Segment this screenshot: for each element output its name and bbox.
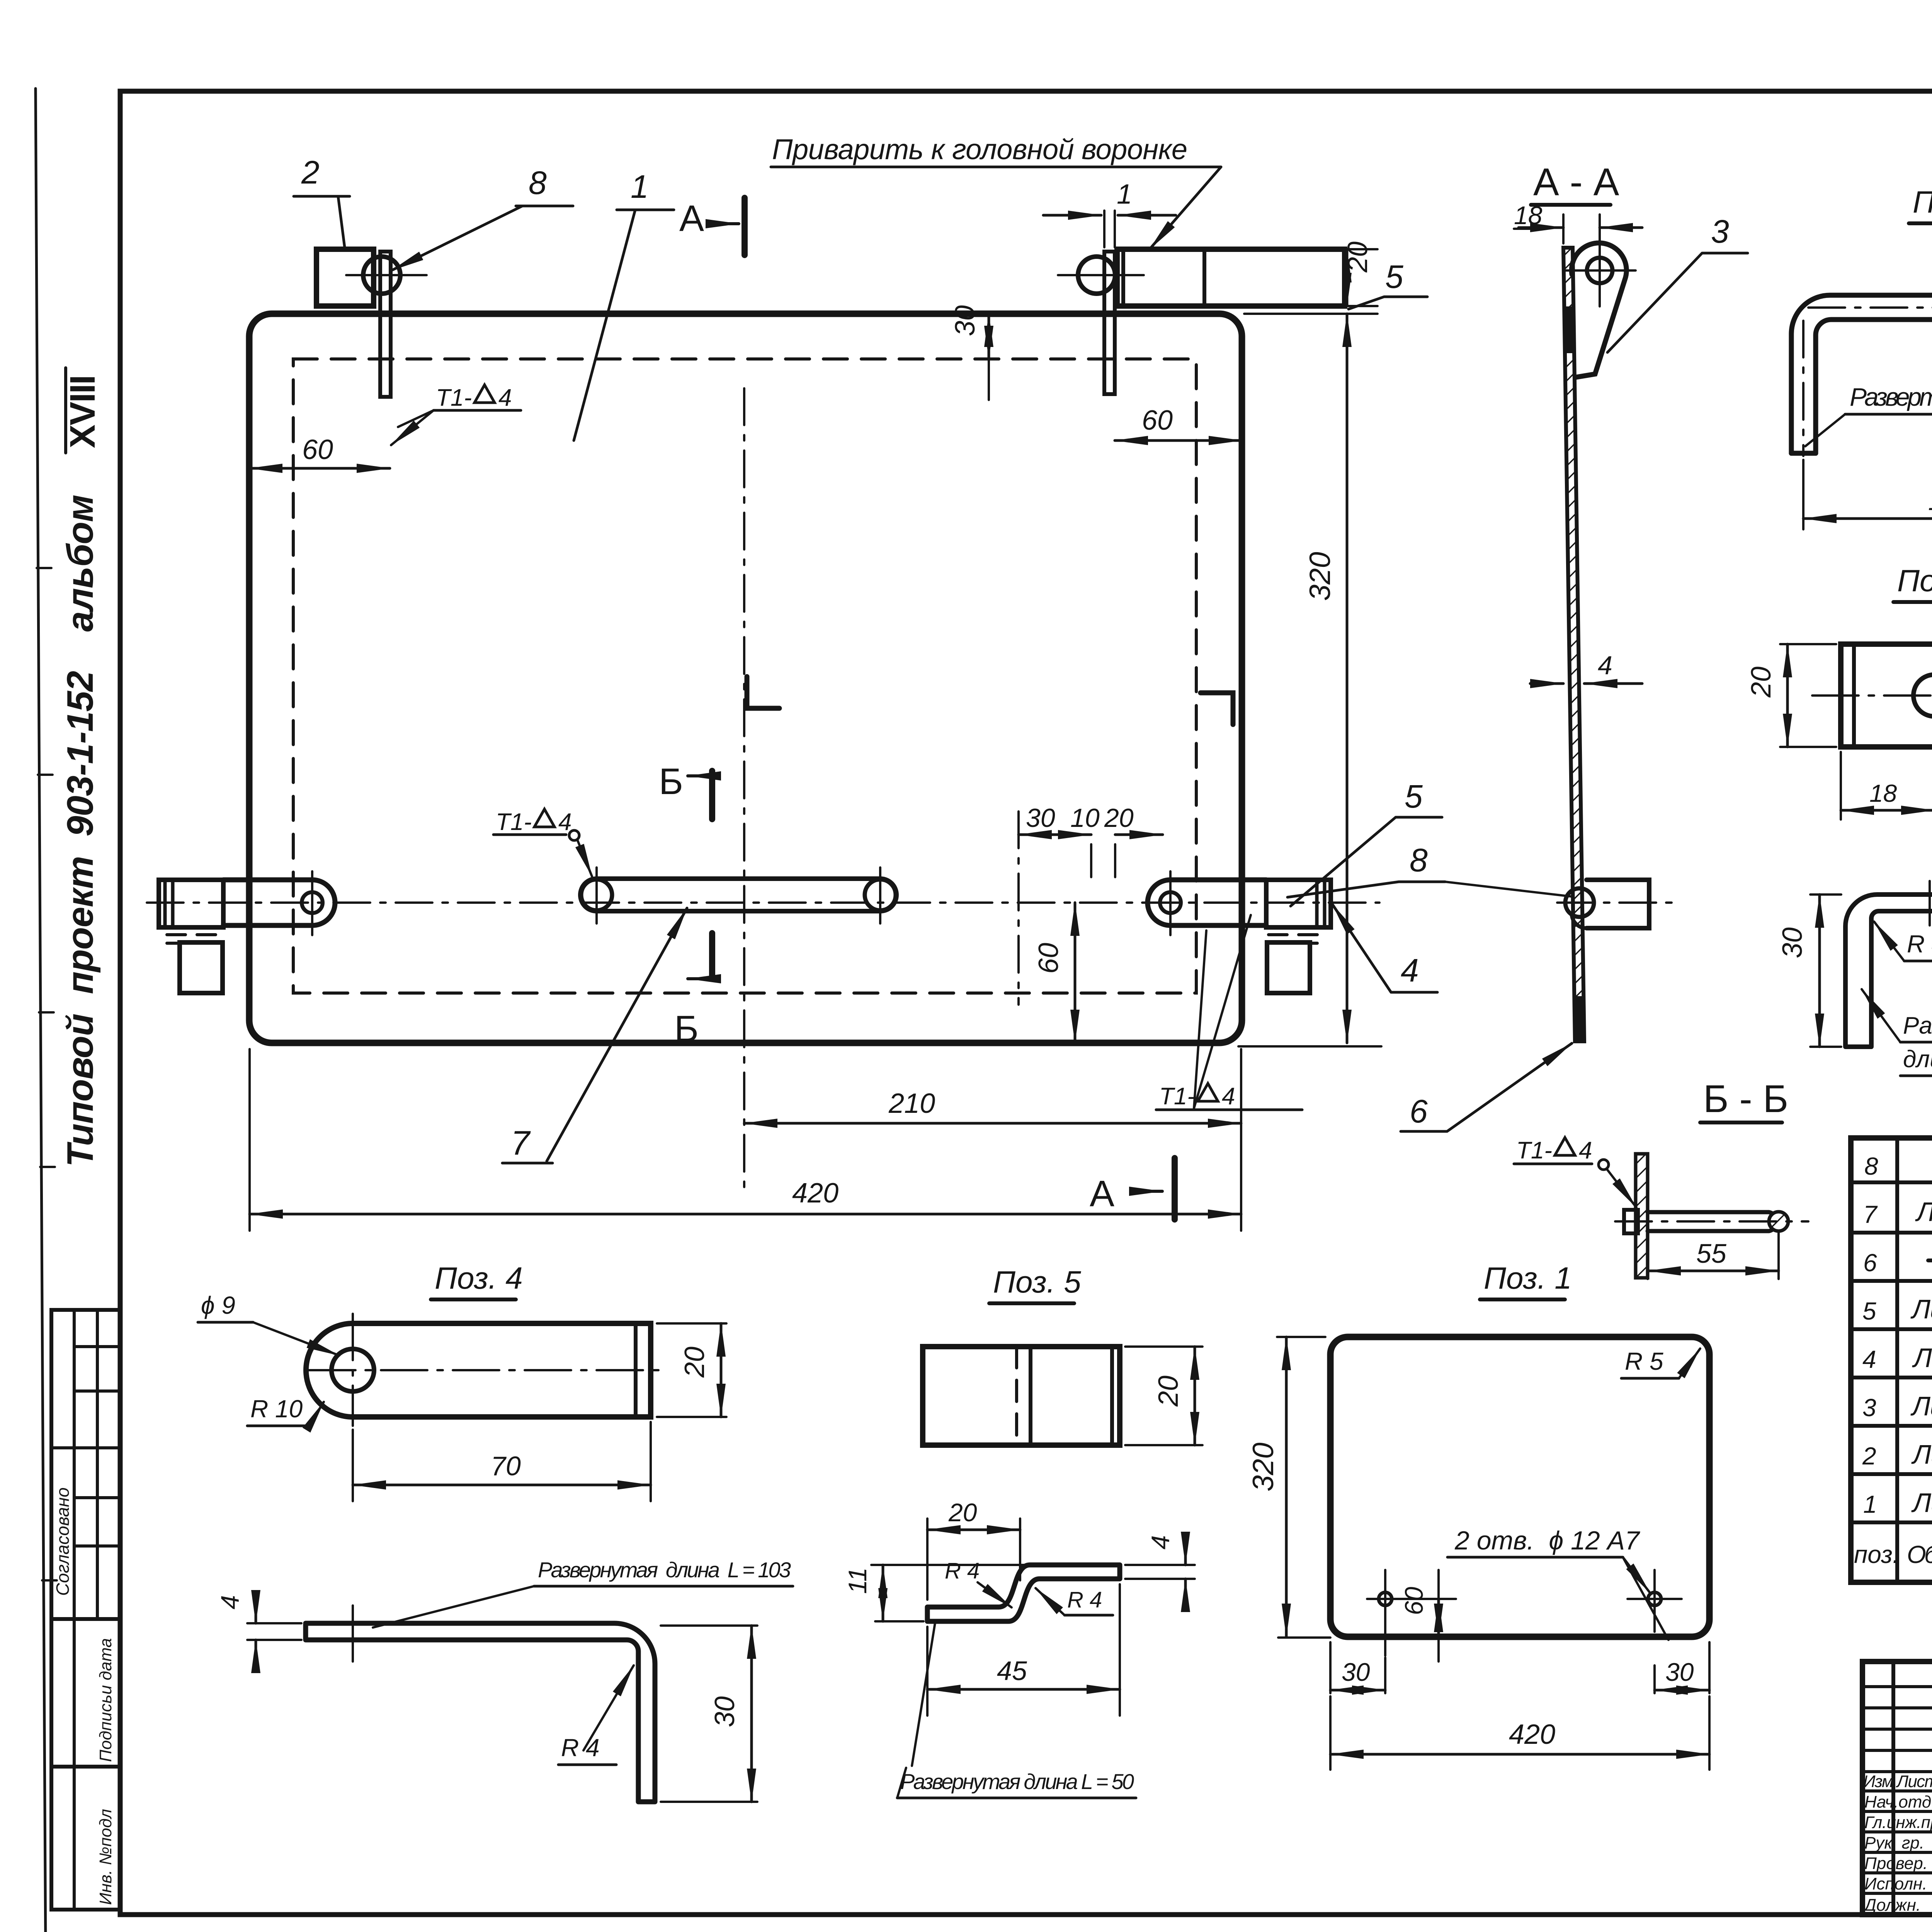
svg-text:Нач.отд.: Нач.отд.	[1864, 1793, 1932, 1811]
svg-text:Поз. 7: Поз. 7	[1913, 185, 1932, 219]
svg-text:А: А	[679, 198, 704, 239]
weld seam (below hinge lug)	[1565, 307, 1573, 352]
signature rows	[1862, 1772, 1932, 1915]
hinge bracket + funnel plate (right)	[1117, 249, 1345, 306]
dim 60 (left)	[249, 467, 390, 470]
latch keeper item 5 (left)	[159, 880, 223, 927]
svg-text:Лист 43: Лист 43	[1911, 1488, 1932, 1518]
label 5 (right latch)	[1405, 778, 1423, 815]
svg-text:Изм.Лист: Изм.Лист	[1863, 1772, 1932, 1791]
svg-text:Лист 43: Лист 43	[1911, 1439, 1932, 1469]
svg-text:5: 5	[1862, 1297, 1876, 1325]
label 4 (right latch lug)	[1401, 952, 1419, 988]
svg-text:420: 420	[792, 1178, 838, 1209]
leader from label 8 to A-A rivet	[1445, 882, 1571, 896]
svg-text:6: 6	[1410, 1093, 1428, 1129]
svg-text:20: 20	[1153, 1376, 1184, 1407]
label Развернутая длина L=50	[900, 1769, 1134, 1794]
dim 20 (Поз.2)	[1780, 644, 1836, 747]
svg-text:20: 20	[679, 1347, 710, 1378]
svg-text:4: 4	[1401, 952, 1419, 988]
hole Ф9А7 (Поз.2)	[1913, 675, 1932, 716]
svg-text:210: 210	[888, 1088, 935, 1119]
label R10 (Поз.4)	[250, 1395, 303, 1423]
svg-text:Подписьи дата: Подписьи дата	[96, 1638, 115, 1762]
svg-text:Исполн.: Исполн.	[1864, 1874, 1927, 1893]
dim 30 right (Поз.1)	[1655, 1642, 1709, 1693]
svg-text:30: 30	[950, 305, 981, 336]
svg-text:ϕ 9: ϕ 9	[201, 1291, 235, 1319]
dim 20 (Z profile top)	[927, 1519, 1020, 1600]
hole left (Поз.1)	[1379, 1592, 1392, 1605]
svg-text:R 4: R 4	[1067, 1587, 1102, 1612]
label R4 (bracket)	[1907, 930, 1932, 958]
svg-text:20: 20	[1342, 241, 1373, 273]
label 2отв Ф12А7	[1454, 1526, 1640, 1555]
hole right (Поз.1)	[1648, 1592, 1661, 1605]
dim 420	[248, 1049, 251, 1231]
PLACE_NOTES	[198, 1261, 1709, 1802]
dim 320 (Поз.1)	[1277, 1337, 1330, 1638]
svg-text:1: 1	[631, 168, 649, 205]
svg-text:8: 8	[1864, 1152, 1878, 1180]
svg-text:Б: Б	[674, 1008, 699, 1049]
svg-text:Лист 43: Лист 43	[1915, 1197, 1932, 1227]
corner mark right	[1201, 693, 1233, 724]
weld label T1-4 (Б-Б)	[1516, 1137, 1592, 1164]
svg-text:Развертка ℓ = 247: Развертка ℓ = 247	[1850, 383, 1932, 411]
svg-text:4: 4	[1146, 1535, 1175, 1549]
svg-text:Б: Б	[659, 761, 683, 802]
door vertical centerline	[743, 388, 745, 1188]
svg-text:R 5: R 5	[1625, 1347, 1663, 1375]
rubber strip item 6 (bottom, section)	[1576, 997, 1583, 1041]
svg-text:30: 30	[1342, 1658, 1370, 1686]
svg-text:1: 1	[1863, 1490, 1877, 1518]
dim 18 (A-A top)	[1563, 214, 1600, 255]
hinge bracket item 2 (left)	[316, 249, 374, 306]
hole Ф9 (Поз.4)	[332, 1349, 374, 1391]
dim 210	[1240, 1049, 1242, 1231]
svg-text:130: 130	[1928, 486, 1932, 516]
svg-text:2: 2	[301, 154, 320, 190]
label 8 leader	[529, 165, 547, 201]
dim 4 (Z thickness)	[1125, 1565, 1195, 1579]
sidebar fold tick marks	[37, 568, 57, 1580]
svg-text:30: 30	[709, 1696, 740, 1727]
svg-text:10: 10	[1070, 803, 1100, 833]
svg-text:2: 2	[1862, 1442, 1876, 1470]
svg-text:Лист 43: Лист 43	[1910, 1294, 1932, 1324]
label R5	[1625, 1347, 1663, 1375]
furnace opening dashed rect	[293, 359, 1196, 993]
label Развернутая длина l=51	[1903, 1012, 1932, 1073]
svg-text:30: 30	[1777, 927, 1808, 958]
svg-text:поз.: поз.	[1854, 1541, 1900, 1568]
svg-text:Поз 2: Поз 2	[1897, 563, 1932, 598]
detail Поз.7 title	[1913, 185, 1932, 219]
sidebar rotated text: Типовой проект 903-1-152 альбом XVIII	[60, 375, 102, 1167]
label R4 (Z right)	[1067, 1587, 1102, 1612]
outer left sidebar line	[36, 88, 46, 1932]
svg-text:55: 55	[1696, 1238, 1727, 1269]
svg-text:18: 18	[1514, 201, 1543, 230]
dim 4 (sheet thickness)	[1598, 651, 1612, 680]
rivet 8 (right hinge)	[1078, 257, 1115, 294]
section Б-Б title	[1703, 1077, 1788, 1121]
dim 30 (bracket)	[1810, 895, 1841, 1047]
label 7 leader	[511, 1124, 531, 1162]
title block signature grid	[1893, 1662, 1932, 1915]
svg-text:7: 7	[1863, 1201, 1878, 1228]
section A-A title	[1533, 160, 1619, 204]
lug item 4 outline	[306, 1323, 651, 1417]
svg-text:Лист 43: Лист 43	[1912, 1343, 1932, 1373]
detail Поз.1 title	[1484, 1261, 1572, 1295]
svg-text:11: 11	[843, 1567, 872, 1594]
item 4 bent bracket side view, Развернутая длина L=103	[538, 1558, 791, 1582]
latch lug item 4 (right)	[1148, 880, 1266, 925]
dim 20 (Поз.4)	[657, 1323, 726, 1417]
svg-text:R 10: R 10	[250, 1395, 303, 1423]
note Приварить к головной воронке	[772, 133, 1187, 165]
weld label T1-4 (left hinge)	[436, 384, 512, 411]
svg-text:Развернутая: Развернутая	[1903, 1012, 1932, 1039]
svg-text:А: А	[1090, 1173, 1114, 1214]
svg-text:Б - Б: Б - Б	[1703, 1077, 1788, 1121]
label 3 leader	[1711, 213, 1729, 250]
section mark Б (upper)	[659, 761, 683, 802]
svg-text:6: 6	[1863, 1249, 1877, 1277]
svg-text:5: 5	[1385, 259, 1403, 295]
dash in row 6 Обознач column	[1928, 1259, 1932, 1262]
label R4 (Z left)	[945, 1558, 980, 1583]
PLACE_DETAILS_BOTTOM	[1851, 1138, 1932, 1582]
svg-text:60: 60	[1400, 1587, 1428, 1615]
svg-text:4: 4	[216, 1595, 244, 1609]
svg-text:Рук. гр.: Рук. гр.	[1864, 1833, 1924, 1852]
svg-text:20: 20	[1746, 667, 1777, 698]
dim 70 (Поз.4)	[353, 1422, 651, 1501]
hinge strap (right, front)	[1104, 252, 1115, 394]
latch lug item 4 (left)	[223, 880, 335, 925]
svg-text:Провер.: Провер.	[1864, 1854, 1928, 1873]
PLACE_MAIN	[1445, 160, 1808, 1279]
label Ф9 (Поз.4)	[201, 1291, 235, 1319]
svg-text:18: 18	[1869, 779, 1897, 807]
item 5 plan view	[923, 1347, 1120, 1445]
dim 320	[1346, 314, 1349, 1043]
door panel item 1 front view	[249, 314, 1242, 1043]
svg-text:5: 5	[1405, 778, 1423, 815]
dim 11 (Z height)	[871, 1565, 1024, 1621]
section mark A (top)	[679, 198, 704, 239]
sidebar box Инв №подл	[51, 1767, 120, 1910]
svg-text:320: 320	[1247, 1442, 1280, 1492]
svg-text:1: 1	[1117, 179, 1132, 210]
dim 30 left (Поз.1)	[1330, 1642, 1385, 1693]
svg-text:Поз. 5: Поз. 5	[993, 1265, 1081, 1299]
svg-text:Инв. №подл: Инв. №подл	[96, 1809, 115, 1905]
svg-text:3: 3	[1862, 1394, 1876, 1422]
svg-text:Приварить к головной воронке: Приварить к головной воронке	[772, 133, 1187, 165]
dim 60 (right)	[1115, 439, 1242, 442]
latch keeper item 5 (right)	[1266, 880, 1331, 927]
svg-text:20: 20	[948, 1498, 977, 1527]
detail Поз.4 title	[435, 1261, 523, 1295]
dim 45 (Z)	[927, 1584, 1120, 1716]
svg-text:XVIII: XVIII	[63, 375, 102, 448]
PLACE_AA	[1746, 165, 1932, 1076]
svg-text:45: 45	[997, 1656, 1027, 1686]
svg-text:7: 7	[511, 1124, 531, 1162]
svg-text:320: 320	[1304, 552, 1337, 601]
svg-text:3: 3	[1711, 213, 1729, 250]
svg-text:30: 30	[1665, 1658, 1694, 1686]
svg-text:70: 70	[491, 1451, 521, 1481]
sidebar box Подписьи дата	[51, 1619, 120, 1767]
svg-text:420: 420	[1509, 1719, 1555, 1750]
title block outer box	[1862, 1662, 1932, 1915]
svg-text:8: 8	[529, 165, 547, 201]
item 2 bent bracket side view	[1845, 895, 1932, 1047]
svg-text:4: 4	[1862, 1345, 1876, 1373]
dim 55 (Б-Б)	[1648, 1233, 1779, 1279]
dim 1 (strap thickness)	[1104, 211, 1115, 247]
door sheet in section Б-Б (hatched)	[1636, 1154, 1648, 1278]
item 5 Z-profile side view	[927, 1565, 1120, 1621]
svg-text:Типовой проект 903-1-152: Типовой проект 903-1-152 альбом	[60, 495, 101, 1167]
svg-text:R 4: R 4	[1907, 930, 1932, 958]
label 5 (top right)	[1385, 259, 1403, 295]
svg-text:Развернутая длина L = 50: Развернутая длина L = 50	[900, 1769, 1134, 1794]
sheet item 1 outline	[1330, 1337, 1709, 1637]
svg-text:Развернутая длина L = 103: Развернутая длина L = 103	[538, 1558, 791, 1582]
svg-text:Поз. 4: Поз. 4	[435, 1261, 523, 1295]
svg-text:R 4: R 4	[561, 1734, 600, 1762]
label 1 leader (door panel)	[631, 168, 649, 205]
dim 60 (Поз.1)	[1437, 1570, 1440, 1662]
svg-text:Гл.инж.пр: Гл.инж.пр	[1864, 1813, 1932, 1832]
dim 4 (bracket thickness)	[247, 1623, 301, 1640]
svg-text:Поз. 1: Поз. 1	[1484, 1261, 1572, 1295]
sidebar box Согласовано	[51, 1310, 120, 1619]
latch rivet and lug (A-A middle)	[1565, 888, 1594, 917]
label R4 (L bracket)	[561, 1734, 600, 1762]
detail Поз.2 title	[1897, 563, 1932, 598]
detail Поз.5 title	[993, 1265, 1081, 1299]
dim 20 (Поз.5 plan)	[1125, 1347, 1202, 1445]
dim 18 (Поз.2)	[1841, 752, 1932, 820]
handle item 7 U-bend	[1791, 295, 1932, 453]
section mark A (bottom)	[1090, 1173, 1114, 1214]
label 6 leader (rubber)	[1410, 1093, 1428, 1129]
section mark Б (lower)	[709, 933, 715, 979]
svg-text:60: 60	[302, 434, 333, 465]
svg-text:R 4: R 4	[945, 1558, 980, 1583]
dim 30 (right hinge to dashed)	[988, 314, 990, 359]
lug item 2 outline	[1841, 644, 1932, 747]
weld label T1-4 (handle)	[496, 809, 571, 835]
svg-text:А - А: А - А	[1533, 160, 1619, 204]
rivet 8 (left hinge)	[363, 257, 400, 294]
hinge lug item 3 (section view)	[1571, 243, 1626, 377]
svg-text:Должн.: Должн.	[1862, 1896, 1921, 1915]
handle item 7	[580, 879, 896, 911]
svg-text:длина ℓ = 51: длина ℓ = 51	[1903, 1046, 1932, 1073]
dim 130	[1803, 460, 1932, 529]
weld label T1-4 (right latch)	[1159, 1083, 1235, 1110]
svg-text:Согласовано: Согласовано	[53, 1487, 73, 1596]
label Развертка l=247	[1850, 383, 1932, 411]
label 2 leader	[301, 154, 320, 190]
svg-text:4: 4	[1598, 651, 1612, 680]
label 8 (right latch rivet)	[1410, 842, 1428, 878]
parts table grid	[1851, 1138, 1932, 1582]
svg-text:Обозначен.: Обозначен.	[1907, 1541, 1932, 1568]
dim 30 (L bracket)	[661, 1626, 757, 1802]
corner mark left	[747, 677, 779, 708]
svg-text:30: 30	[1026, 803, 1055, 833]
latch horizontal centerline	[147, 901, 1379, 904]
svg-text:8: 8	[1410, 842, 1428, 878]
svg-text:60: 60	[1142, 405, 1173, 436]
svg-text:Лист 43: Лист 43	[1910, 1391, 1932, 1421]
hinge strap item 3 (left, front)	[380, 252, 391, 397]
dim 60 (latch to bottom)	[1074, 903, 1077, 1043]
door sheet in section A-A (hatched)	[1563, 248, 1584, 1041]
handle centerline	[1808, 306, 1932, 309]
svg-text:2 отв. ϕ 12 А7: 2 отв. ϕ 12 А7	[1454, 1526, 1640, 1555]
svg-text:60: 60	[1033, 943, 1064, 974]
handle rod item 7 in section Б-Б	[1648, 1212, 1777, 1231]
svg-text:20: 20	[1104, 803, 1134, 833]
PLACE_TABLE	[1862, 1662, 1932, 1932]
dims 30 10 20 above right latch	[1017, 811, 1020, 1005]
dim 20 and 320 extension line right	[1238, 249, 1381, 1046]
dim 420 (Поз.1)	[1330, 1696, 1709, 1770]
